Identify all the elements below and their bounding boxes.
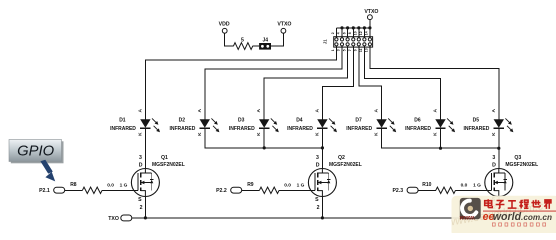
svg-text:K: K (314, 132, 320, 136)
svg-text:INFRARED: INFRARED (346, 126, 372, 132)
svg-text:4: 4 (337, 32, 341, 34)
svg-text:2: 2 (140, 205, 143, 211)
svg-text:INFRARED: INFRARED (405, 126, 431, 132)
svg-text:P2.1: P2.1 (39, 188, 50, 194)
svg-text:S: S (138, 197, 142, 203)
svg-text:K: K (256, 132, 262, 136)
svg-text:R10: R10 (422, 182, 431, 188)
svg-text:D5: D5 (473, 117, 480, 123)
svg-text:2: 2 (331, 32, 335, 34)
svg-text:K: K (433, 132, 439, 136)
svg-text:A: A (374, 109, 380, 113)
svg-text:D: D (139, 162, 143, 168)
svg-text:A: A (137, 109, 143, 113)
svg-text:D: D (316, 162, 320, 168)
svg-text:A: A (491, 109, 497, 113)
svg-text:INFRARED: INFRARED (110, 126, 136, 132)
svg-text:3: 3 (337, 49, 341, 51)
svg-text:K: K (137, 132, 143, 136)
svg-text:1 G: 1 G (120, 183, 128, 189)
svg-text:5: 5 (241, 37, 244, 43)
svg-text:D1: D1 (119, 117, 126, 123)
svg-text:J1: J1 (323, 39, 328, 44)
svg-text:A: A (256, 109, 262, 113)
svg-text:INFRARED: INFRARED (287, 126, 313, 132)
svg-text:Q1: Q1 (161, 155, 168, 161)
svg-text:VTXO: VTXO (277, 22, 291, 28)
svg-text:2: 2 (317, 205, 320, 211)
svg-text:A: A (197, 109, 203, 113)
svg-text:10: 10 (354, 31, 358, 35)
svg-text:D: D (492, 162, 496, 168)
svg-text:D2: D2 (179, 117, 186, 123)
svg-text:8: 8 (348, 32, 352, 34)
svg-text:GPIO: GPIO (17, 143, 54, 159)
svg-text:D7: D7 (355, 117, 362, 123)
svg-text:K: K (197, 132, 203, 136)
svg-text:0.0: 0.0 (284, 183, 291, 189)
svg-text:INFRARED: INFRARED (169, 126, 195, 132)
svg-text:3: 3 (492, 155, 495, 161)
svg-text:7: 7 (348, 49, 352, 51)
svg-text:1 G: 1 G (297, 183, 305, 189)
svg-text:D6: D6 (414, 117, 421, 123)
svg-text:D3: D3 (238, 117, 245, 123)
svg-text:S: S (315, 197, 319, 203)
svg-text:0.0: 0.0 (461, 183, 468, 189)
svg-text:3: 3 (139, 155, 142, 161)
svg-text:P2.3: P2.3 (392, 188, 403, 194)
svg-text:J4: J4 (263, 38, 269, 44)
svg-text:D4: D4 (296, 117, 303, 123)
svg-text:K: K (491, 132, 497, 136)
svg-text:www.: www. (460, 215, 476, 222)
svg-text:A: A (314, 109, 320, 113)
svg-text:1: 1 (331, 49, 335, 51)
svg-text:INFRARED: INFRARED (463, 126, 489, 132)
svg-text:P2.2: P2.2 (216, 188, 227, 194)
svg-text:MGSF2N02EL: MGSF2N02EL (329, 162, 362, 168)
svg-text:11: 11 (359, 48, 363, 52)
svg-text:14: 14 (365, 31, 369, 35)
svg-text:6: 6 (342, 32, 346, 34)
svg-text:13: 13 (365, 48, 369, 52)
svg-text:Q3: Q3 (514, 155, 521, 161)
svg-text:MGSF2N02EL: MGSF2N02EL (152, 162, 185, 168)
svg-text:1 G: 1 G (473, 183, 481, 189)
svg-text:VTXO: VTXO (364, 9, 378, 15)
svg-text:TXO: TXO (108, 216, 119, 222)
svg-text:9: 9 (354, 49, 358, 51)
svg-text:MGSF2N02EL: MGSF2N02EL (505, 162, 538, 168)
svg-text:R9: R9 (247, 182, 254, 188)
svg-text:0.0: 0.0 (107, 183, 114, 189)
svg-text:K: K (374, 132, 380, 136)
svg-text:VDD: VDD (219, 22, 230, 28)
svg-text:INFRARED: INFRARED (229, 126, 255, 132)
svg-text:world.com.cn: world.com.cn (493, 211, 552, 223)
svg-text:R8: R8 (70, 182, 77, 188)
svg-text:5: 5 (342, 49, 346, 51)
svg-text:A: A (433, 109, 439, 113)
svg-text:Q2: Q2 (338, 155, 345, 161)
svg-text:12: 12 (359, 31, 363, 35)
svg-text:3: 3 (316, 155, 319, 161)
